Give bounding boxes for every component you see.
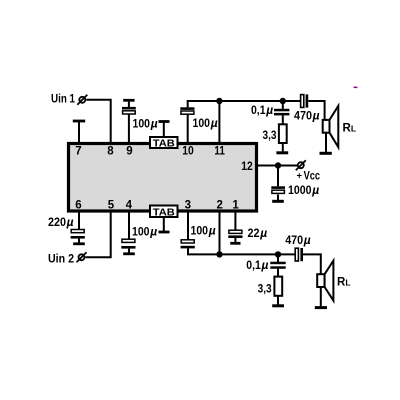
svg-text:µ: µ xyxy=(210,116,218,130)
wire pin 12 to Vcc xyxy=(257,165,298,167)
svg-text:100: 100 xyxy=(133,117,151,131)
bottom TAB terminal stub xyxy=(159,217,170,232)
capacitor C6 220u at pin 6 xyxy=(71,212,85,244)
svg-text:100: 100 xyxy=(132,225,150,239)
node dot at pin 12 xyxy=(275,162,281,168)
resistor R1 3,3 top zobel xyxy=(279,124,287,143)
TAB box bottom xyxy=(150,206,178,219)
svg-text:RL: RL xyxy=(343,122,357,134)
svg-text:µ: µ xyxy=(311,183,319,197)
resistor R2 3,3 bottom zobel xyxy=(274,277,282,296)
speaker LS1 top xyxy=(323,106,339,147)
svg-text:µ: µ xyxy=(66,215,74,229)
svg-text:470: 470 xyxy=(285,233,303,247)
wire pin 11 to rail xyxy=(218,101,220,144)
op-amp IC body U1 xyxy=(69,144,257,212)
input connector J2 (Uin 2) xyxy=(77,252,87,262)
svg-text:µ: µ xyxy=(312,108,320,122)
svg-text:11: 11 xyxy=(214,146,225,158)
node dot at zobel junction bottom xyxy=(275,251,281,257)
svg-text:8: 8 xyxy=(107,146,114,158)
capacitor C8 100u at pin 3 xyxy=(181,212,195,254)
svg-text:2: 2 xyxy=(216,200,222,212)
svg-text:+: + xyxy=(297,171,303,182)
svg-text:3,3: 3,3 xyxy=(263,128,277,142)
capacitor C4 470u top output xyxy=(301,94,309,107)
node dot at zobel junction top xyxy=(280,98,286,104)
ground below speaker bottom xyxy=(315,287,327,308)
svg-text:Vcc: Vcc xyxy=(304,168,321,182)
svg-text:100: 100 xyxy=(193,116,211,130)
top TAB terminal stub xyxy=(159,122,170,138)
svg-text:0,1: 0,1 xyxy=(246,258,261,272)
node dot above pin 11 xyxy=(216,98,222,104)
ground below R1 xyxy=(276,143,288,153)
svg-text:µ: µ xyxy=(149,225,157,239)
svg-text:RL: RL xyxy=(337,276,351,288)
capacitor C3 0,1u top zobel xyxy=(274,101,289,124)
svg-text:1: 1 xyxy=(232,200,239,212)
svg-text:5: 5 xyxy=(108,200,115,212)
ground below speaker top xyxy=(320,133,332,154)
svg-text:0,1: 0,1 xyxy=(251,103,266,117)
svg-text:4: 4 xyxy=(126,200,133,212)
ground below R2 xyxy=(272,296,284,306)
svg-text:µ: µ xyxy=(208,223,216,237)
capacitor C2 100u at pin 10 xyxy=(180,101,194,144)
capacitor C11 470u bottom output xyxy=(295,248,303,261)
svg-text:470: 470 xyxy=(294,108,312,122)
svg-text:µ: µ xyxy=(261,258,269,272)
svg-text:7: 7 xyxy=(75,146,81,158)
TAB box top xyxy=(150,137,178,150)
capacitor C7 100u at pin 4 xyxy=(121,212,135,254)
svg-text:3,3: 3,3 xyxy=(258,281,272,295)
input connector J1 (Uin 1) xyxy=(77,95,87,105)
svg-text:Uin 2: Uin 2 xyxy=(48,254,74,266)
capacitor C10 0,1u bottom zobel xyxy=(270,254,285,276)
bottom rail wire xyxy=(187,253,295,255)
speaker LS2 bottom xyxy=(317,261,333,301)
wire J2 to pin 5 xyxy=(86,212,111,257)
svg-text:1000: 1000 xyxy=(288,183,312,197)
wire pin 2 to rail xyxy=(219,212,221,254)
svg-text:220: 220 xyxy=(48,215,66,229)
wire C4 to speaker top xyxy=(308,101,324,120)
svg-text:TAB: TAB xyxy=(153,139,175,150)
svg-text:12: 12 xyxy=(241,161,253,173)
Vcc connector xyxy=(296,160,306,170)
capacitor C1 100u at pin 9 xyxy=(122,100,136,143)
svg-text:Uin 1: Uin 1 xyxy=(51,94,76,106)
svg-text:10: 10 xyxy=(182,146,194,158)
top feedback rail wire xyxy=(187,100,301,102)
svg-text:µ: µ xyxy=(150,117,158,131)
svg-text:µ: µ xyxy=(303,233,311,247)
wire C11 to speaker bottom xyxy=(303,254,321,274)
capacitor C9 22u at pin 1 xyxy=(228,212,242,243)
svg-text:9: 9 xyxy=(126,146,132,158)
svg-text:100: 100 xyxy=(191,223,209,237)
svg-text:3: 3 xyxy=(185,200,191,212)
stray magenta mark xyxy=(354,87,358,89)
svg-text:µ: µ xyxy=(259,226,267,240)
svg-text:µ: µ xyxy=(265,103,273,117)
svg-text:6: 6 xyxy=(75,200,81,212)
node dot at pin 2 xyxy=(216,251,222,257)
wire J1 to pin 8 xyxy=(86,100,110,144)
capacitor C5 1000u supply xyxy=(271,166,285,202)
svg-text:22: 22 xyxy=(248,226,260,240)
pin 7 open stub xyxy=(73,121,85,144)
